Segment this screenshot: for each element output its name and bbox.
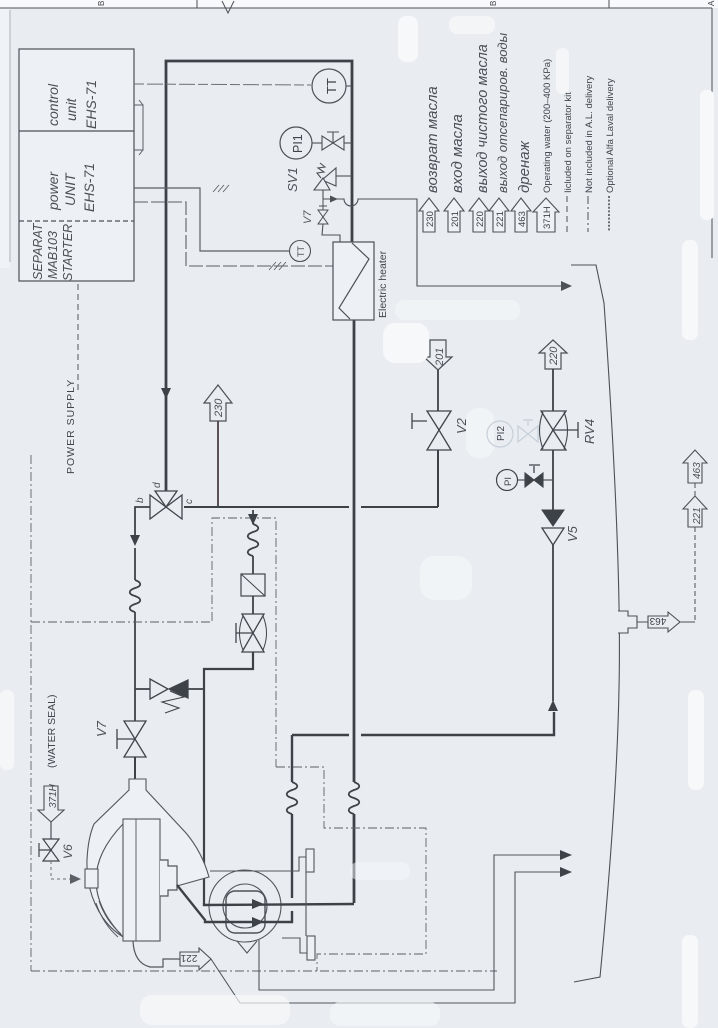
- pipe loop left leg + top + right leg: [166, 61, 354, 903]
- svg-text:RV4: RV4: [582, 419, 597, 444]
- svg-text:201: 201: [434, 348, 446, 367]
- regulating valve RV4: [540, 411, 579, 450]
- svg-text:выход чистого масла: выход чистого масла: [475, 44, 491, 193]
- temperature transmitter TT heater: [290, 241, 311, 262]
- connection arrow 221 up: [683, 496, 707, 527]
- solenoid valve SV1: [314, 163, 352, 199]
- clean oil discharge line from separator: [292, 712, 554, 735]
- connection arrow 230: [204, 385, 232, 421]
- legend sample dense dashed: [608, 196, 610, 232]
- svg-text:вход масла: вход масла: [449, 114, 466, 193]
- control unit text: [45, 80, 99, 129]
- svg-text:TT: TT: [324, 78, 339, 94]
- starter / power unit / control unit cabinet: [19, 49, 134, 281]
- flow arrow at line end: [561, 281, 572, 291]
- svg-text:V7: V7: [94, 720, 109, 737]
- wire cabinet to TT heater: [134, 188, 290, 251]
- sludge line to outlet arrow: [259, 855, 560, 990]
- shield arc: [96, 901, 121, 937]
- svg-text:PI: PI: [503, 477, 514, 486]
- legend arrow 221: [489, 198, 509, 232]
- svg-text:463: 463: [517, 211, 528, 227]
- svg-text:(WATER SEAL): (WATER SEAL): [46, 694, 58, 768]
- connection arrow 221: [180, 948, 211, 970]
- RV4 stem down: [552, 450, 554, 510]
- V6 dotted line to stub: [51, 861, 70, 879]
- spring relief valve: [135, 679, 204, 713]
- strain marks on wire 2: [269, 262, 286, 270]
- wire cabinet to TT top: [134, 84, 311, 85]
- valve V6: [39, 839, 59, 861]
- discharge foot: [133, 941, 180, 967]
- separator starter text: [31, 222, 75, 281]
- svg-text:Optional Alfa Laval delivery: Optional Alfa Laval delivery: [605, 78, 616, 193]
- svg-text:220: 220: [475, 211, 486, 227]
- svg-text:201: 201: [450, 211, 461, 227]
- water inlet stub: [85, 869, 98, 888]
- svg-text:unit: unit: [63, 97, 79, 121]
- A.L. delivery boundary left: [31, 455, 497, 971]
- drain stub on slanted line: [618, 611, 637, 633]
- svg-text:220: 220: [548, 346, 560, 366]
- svg-text:возврат масла: возврат масла: [424, 86, 441, 193]
- svg-text:PI2: PI2: [496, 426, 507, 441]
- temperature transmitter TT top: [312, 69, 346, 103]
- oil pipe bowl to discharge: [177, 814, 292, 922]
- svg-text:V5: V5: [565, 525, 580, 542]
- stem to V6: [50, 822, 52, 839]
- flow arrow b-branch: [130, 535, 140, 546]
- V7 stem into separator: [134, 757, 136, 780]
- valve V7 (small, in drain): [318, 199, 340, 242]
- svg-text:Operating water (200–400 KPa): Operating water (200–400 KPa): [542, 59, 553, 193]
- V2 stem to oil line: [437, 450, 439, 507]
- wire cabinet to heater (dashed): [134, 202, 333, 266]
- oil line 3-way valve to V2 branch: [184, 506, 438, 508]
- machine mounts: [282, 849, 315, 960]
- electric heater: [333, 242, 374, 320]
- frame centering mark: [222, 1, 234, 13]
- svg-text:STARTER: STARTER: [61, 224, 75, 281]
- valve V2: [412, 411, 451, 450]
- svg-text:Iicluded on separator kit: Iicluded on separator kit: [563, 92, 574, 193]
- svg-text:power: power: [45, 171, 61, 211]
- svg-text:EHS-71: EHS-71: [81, 163, 97, 212]
- svg-text:463: 463: [649, 615, 666, 626]
- regulating valve with handwheel: [252, 596, 254, 614]
- svg-text:Not included in A.L. delivery: Not included in A.L. delivery: [584, 76, 595, 193]
- connector bracket at cabinet: [134, 100, 143, 155]
- legend sample dash-dot: [587, 196, 589, 232]
- svg-text:371H: 371H: [48, 783, 59, 808]
- svg-text:выход отсепариров. воды: выход отсепариров. воды: [495, 32, 510, 193]
- svg-text:Electric heater: Electric heater: [377, 250, 389, 318]
- pressure indicator PI1: [280, 127, 312, 159]
- chain down to pump line: [204, 652, 253, 903]
- pressure gauge PI with needle valve: [517, 465, 553, 487]
- svg-text:c: c: [184, 499, 195, 504]
- svg-text:B: B: [489, 1, 498, 6]
- pointer triangle below spindle: [237, 941, 257, 953]
- svg-text:EHS-71: EHS-71: [83, 80, 99, 129]
- flow arrow on drain line: [330, 196, 338, 203]
- ghost erased gauge PI2: [487, 420, 538, 447]
- connection arrow 371H: [38, 786, 64, 822]
- flexible connector on heater riser: [349, 782, 360, 814]
- svg-text:230: 230: [213, 398, 225, 418]
- PI1 isolation valve: [312, 132, 352, 150]
- flow arrow chain: [248, 514, 258, 525]
- power unit text: [45, 163, 97, 212]
- flow arrow on left leg: [161, 388, 171, 399]
- connection arrow 463 right: [648, 612, 680, 632]
- svg-text:230: 230: [425, 211, 436, 227]
- svg-text:UNIT: UNIT: [62, 172, 78, 206]
- svg-text:d: d: [152, 482, 163, 488]
- svg-text:V6: V6: [61, 844, 75, 859]
- svg-text:TT: TT: [296, 246, 306, 257]
- oil pipe bowl to heater loop: [204, 903, 354, 905]
- strain marks on wire: [213, 185, 229, 192]
- svg-text:A: A: [707, 0, 716, 6]
- svg-text:SV1: SV1: [285, 167, 300, 192]
- frame line to mounts: [210, 870, 282, 872]
- svg-text:221: 221: [495, 211, 506, 227]
- svg-text:B: B: [97, 1, 106, 6]
- dashed drain link: [694, 483, 696, 496]
- svg-text:POWER SUPPLY: POWER SUPPLY: [65, 379, 77, 474]
- b-branch to separator: [130, 507, 150, 721]
- separator bowl left arc: [96, 824, 123, 937]
- connection arrow 463 up: [683, 450, 707, 483]
- water drain line to outlet arrow: [211, 872, 560, 1003]
- svg-text:221: 221: [180, 952, 197, 963]
- flow arrow up into V5 branch: [548, 700, 558, 711]
- svg-text:control: control: [45, 83, 61, 126]
- legend arrow 220: [469, 198, 489, 232]
- orifice / strainer box: [241, 574, 265, 596]
- separator frame hood: [87, 779, 209, 941]
- connection arrow 201: [424, 340, 452, 370]
- slanted operating-water line: [571, 265, 619, 982]
- SV1 drain line with pipe hop: [323, 199, 561, 286]
- inlet cone block: [160, 860, 177, 896]
- svg-text:MAB103: MAB103: [46, 231, 60, 279]
- spindle circle with paring device: [209, 870, 281, 942]
- V5 stem down to discharge line: [552, 545, 554, 701]
- svg-text:b: b: [135, 497, 146, 503]
- valve chain branch from oil line: [248, 510, 259, 574]
- 230 stem: [217, 421, 219, 507]
- power supply dashed line: [77, 284, 79, 392]
- svg-text:PI1: PI1: [291, 134, 305, 153]
- svg-text:371H: 371H: [542, 206, 553, 229]
- legend arrow 371H: [533, 198, 559, 232]
- svg-text:463: 463: [692, 462, 703, 479]
- 220 stem to RV4: [552, 369, 554, 411]
- connection arrow 220: [539, 340, 567, 369]
- legend sample dashed: [566, 196, 568, 232]
- svg-text:221: 221: [692, 507, 703, 525]
- legend arrow 463: [511, 198, 531, 232]
- valve V7 (water seal feed): [117, 721, 146, 757]
- heater element zigzag: [339, 243, 369, 319]
- dash-dot kit boundary around valve chain: [212, 518, 276, 767]
- svg-text:V7: V7: [302, 210, 314, 224]
- three-way change-over valve: [150, 491, 182, 519]
- sheet frame top line: [0, 0, 712, 262]
- svg-text:дренаж: дренаж: [516, 140, 533, 193]
- svg-text:SEPARAT: SEPARAT: [31, 222, 45, 280]
- non-return valve V5: [542, 510, 564, 526]
- 201 stem to V2: [437, 370, 439, 411]
- separator bowl body: [123, 819, 160, 941]
- legend arrow 201: [444, 198, 464, 232]
- flexible connector on discharge riser: [287, 782, 298, 814]
- legend arrow 230: [419, 198, 439, 232]
